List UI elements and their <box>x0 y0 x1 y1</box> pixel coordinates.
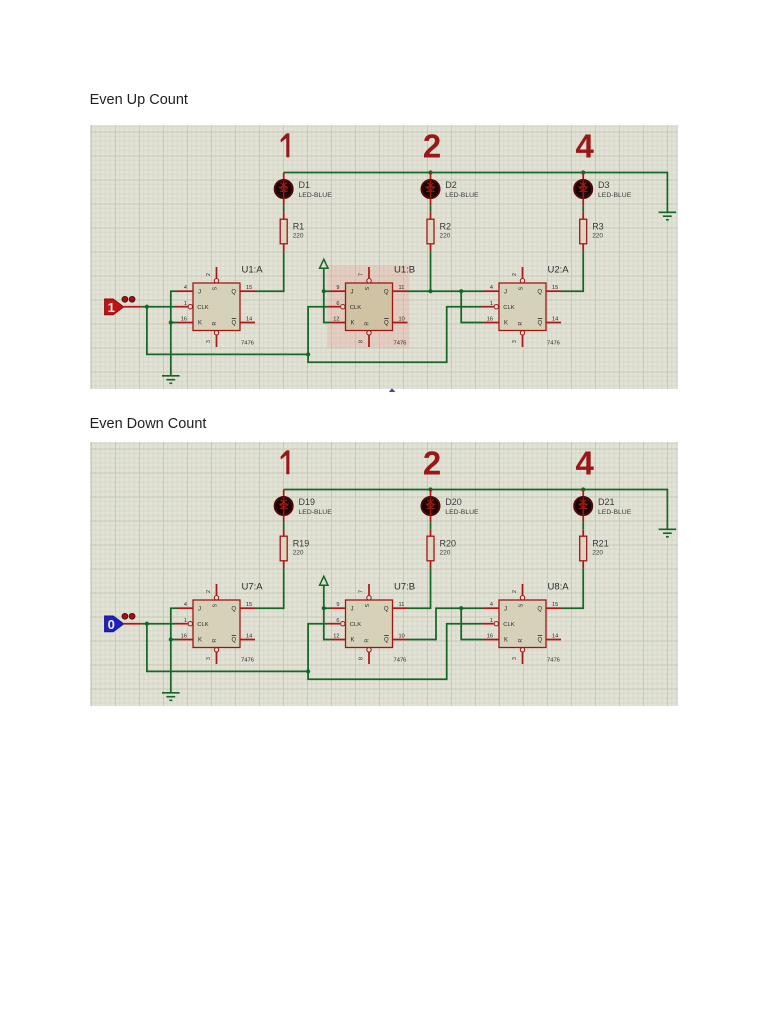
svg-text:R1: R1 <box>293 221 305 231</box>
svg-text:14: 14 <box>246 633 252 639</box>
svg-text:LED-BLUE: LED-BLUE <box>598 192 632 199</box>
svg-text:15: 15 <box>552 285 558 291</box>
LED D21 with anode stub from rail <box>574 489 632 522</box>
digit label 1 <box>281 133 290 157</box>
svg-text:7: 7 <box>359 589 365 592</box>
svg-text:Q: Q <box>232 321 237 327</box>
JK flip-flop U8:A (7476) <box>481 584 561 664</box>
section title: Even Up Count <box>90 92 188 108</box>
JK flip-flop U1:A (7476) <box>175 267 255 347</box>
svg-text:7: 7 <box>359 273 365 276</box>
svg-text:1: 1 <box>184 617 187 623</box>
svg-text:11: 11 <box>399 602 405 608</box>
svg-text:Q: Q <box>384 290 389 296</box>
wire clock net from probe to CLK pins <box>142 622 175 624</box>
svg-text:K: K <box>198 321 202 327</box>
node K1 junction <box>169 320 173 324</box>
schematic 2: even down counter <box>90 442 678 706</box>
svg-text:K: K <box>198 637 202 643</box>
svg-text:U7:A: U7:A <box>242 581 264 592</box>
wire LED D2 cathode to resistor R2 <box>430 205 432 212</box>
svg-text:U1:A: U1:A <box>242 265 264 276</box>
svg-text:R20: R20 <box>440 538 457 548</box>
svg-text:Q: Q <box>538 637 543 643</box>
svg-text:2: 2 <box>423 444 441 481</box>
resistor R1 220 <box>280 212 304 251</box>
node Q2/R2 <box>428 289 432 293</box>
node rail/D3 <box>581 487 585 491</box>
wire junction down to K of FF3 <box>461 608 484 639</box>
wire Qbar of FF2 to J/K of FF3 <box>408 608 485 639</box>
svg-text:2: 2 <box>512 273 518 276</box>
svg-text:10: 10 <box>399 633 405 639</box>
node probe/clock junction <box>145 305 149 309</box>
wire junction down to K of FF3 <box>461 291 484 322</box>
wire Q of FF3 to D-column 3 <box>561 251 583 291</box>
svg-text:7476: 7476 <box>547 657 560 663</box>
svg-text:15: 15 <box>552 602 558 608</box>
pin name labels of U1:B <box>350 286 389 326</box>
svg-text:CLK: CLK <box>350 622 361 628</box>
svg-text:4: 4 <box>184 602 187 608</box>
svg-text:S: S <box>212 286 218 290</box>
node K1 junction <box>169 637 173 641</box>
svg-text:R21: R21 <box>592 538 609 548</box>
JK flip-flop U1:B (7476) <box>328 267 408 347</box>
svg-text:D3: D3 <box>598 180 610 190</box>
pin numbers of U1:A <box>181 273 252 343</box>
svg-text:U7:B: U7:B <box>394 581 415 592</box>
node J3/K3 tie <box>459 606 463 610</box>
LED D19 with anode stub from rail <box>275 489 333 522</box>
svg-text:D2: D2 <box>445 180 457 190</box>
svg-text:Q: Q <box>231 606 236 612</box>
svg-text:R: R <box>518 321 524 325</box>
svg-text:D20: D20 <box>445 497 462 507</box>
svg-text:11: 11 <box>399 285 405 291</box>
svg-text:16: 16 <box>487 316 493 322</box>
svg-text:8: 8 <box>359 340 365 343</box>
svg-text:4: 4 <box>576 444 595 481</box>
svg-text:CLK: CLK <box>503 622 514 628</box>
wire power terminal to J/K of FF2 <box>324 268 331 322</box>
svg-text:Q: Q <box>384 637 389 643</box>
svg-text:16: 16 <box>487 633 493 639</box>
wire top rail to right ground <box>284 489 668 529</box>
svg-text:J: J <box>504 606 507 612</box>
ground (right) <box>659 529 677 537</box>
wire J/K of FF1 to ground <box>171 608 178 693</box>
node probe/clock junction <box>145 621 149 625</box>
wire Q of FF3 to D-column 3 <box>561 568 583 608</box>
svg-text:S: S <box>518 603 524 607</box>
svg-text:7476: 7476 <box>241 657 254 663</box>
section title: Even Down Count <box>90 416 207 432</box>
LED D20 with anode stub from rail <box>422 489 480 522</box>
svg-text:R: R <box>212 321 218 325</box>
svg-text:9: 9 <box>336 602 339 608</box>
svg-text:6: 6 <box>336 301 339 307</box>
svg-text:4: 4 <box>576 127 595 164</box>
wire Q of FF1 to D-column 1 <box>255 251 284 291</box>
digit label 1 <box>281 450 290 474</box>
svg-text:14: 14 <box>552 633 558 639</box>
svg-text:7476: 7476 <box>394 341 407 347</box>
svg-text:Q: Q <box>231 290 236 296</box>
svg-text:3: 3 <box>512 340 518 343</box>
node rail/D3 <box>581 170 585 174</box>
wire LED D1 cathode to resistor R1 <box>283 205 285 212</box>
svg-text:7476: 7476 <box>394 657 407 663</box>
logic state probe 1 <box>105 296 135 315</box>
svg-text:12: 12 <box>333 633 339 639</box>
svg-text:J: J <box>504 290 507 296</box>
svg-text:15: 15 <box>246 285 252 291</box>
power terminal (up arrow) for J/K of FF2 <box>320 259 328 268</box>
resistor R19 220 <box>280 529 309 568</box>
cursor marker (blue) below schematic 1 <box>388 388 398 394</box>
svg-text:220: 220 <box>293 233 304 240</box>
wire LED D19 cathode to resistor R19 <box>283 522 285 529</box>
svg-text:U8:A: U8:A <box>548 581 570 592</box>
svg-text:2: 2 <box>512 589 518 592</box>
node clock bottom junction <box>306 669 310 673</box>
resistor R21 220 <box>580 529 609 568</box>
svg-text:10: 10 <box>399 316 405 322</box>
svg-text:LED-BLUE: LED-BLUE <box>299 508 333 515</box>
wire LED D20 cathode to resistor R20 <box>430 522 432 529</box>
svg-text:7476: 7476 <box>241 341 254 347</box>
resistor R20 220 <box>427 529 456 568</box>
wire probe output stub <box>124 622 142 624</box>
wire probe output stub <box>124 306 142 308</box>
svg-text:2: 2 <box>423 127 441 164</box>
svg-text:16: 16 <box>181 633 187 639</box>
svg-text:0: 0 <box>108 617 115 632</box>
svg-text:6: 6 <box>336 617 339 623</box>
JK flip-flop U7:B (7476) <box>328 584 408 664</box>
LED D3 with anode stub from rail <box>574 173 632 206</box>
schematic 1: even up counter <box>90 125 678 389</box>
pin name labels of U7:A <box>197 603 236 643</box>
wire clock net from probe to CLK pins <box>142 306 175 308</box>
svg-text:Q: Q <box>232 637 237 643</box>
ground (left) <box>162 376 180 384</box>
svg-text:8: 8 <box>359 656 365 659</box>
svg-text:3: 3 <box>512 656 518 659</box>
logic state probe 0 <box>105 613 135 632</box>
node rail/D2 <box>428 170 432 174</box>
svg-text:Q: Q <box>538 321 543 327</box>
svg-text:R: R <box>212 638 218 642</box>
resistor R2 220 <box>427 212 451 251</box>
wire LED D21 cathode to resistor R21 <box>582 522 584 529</box>
svg-text:J: J <box>351 606 354 612</box>
JK flip-flop U7:A (7476) <box>175 584 255 664</box>
svg-text:Q: Q <box>537 290 542 296</box>
svg-text:1: 1 <box>108 300 115 315</box>
svg-text:S: S <box>365 603 371 607</box>
svg-text:R: R <box>518 638 524 642</box>
svg-text:12: 12 <box>333 316 339 322</box>
svg-text:S: S <box>518 286 524 290</box>
node J3/K3 tie <box>459 289 463 293</box>
pin name labels of U7:B <box>350 603 389 643</box>
svg-text:R2: R2 <box>440 221 452 231</box>
svg-text:4: 4 <box>184 285 187 291</box>
svg-text:U1:B: U1:B <box>394 265 415 276</box>
svg-text:CLK: CLK <box>350 305 361 311</box>
svg-text:220: 220 <box>440 233 451 240</box>
svg-text:Q: Q <box>384 321 389 327</box>
svg-text:2: 2 <box>206 589 212 592</box>
svg-text:J: J <box>198 606 201 612</box>
svg-text:D21: D21 <box>598 497 615 507</box>
LED D1 with anode stub from rail <box>275 173 333 206</box>
svg-text:D1: D1 <box>299 180 311 190</box>
ground (right) <box>659 212 677 220</box>
wire Q of FF1 to D-column 1 <box>255 568 284 608</box>
svg-text:K: K <box>504 321 508 327</box>
svg-text:CLK: CLK <box>197 622 208 628</box>
pin name labels of U2:A <box>503 286 542 326</box>
svg-text:CLK: CLK <box>197 305 208 311</box>
svg-text:4: 4 <box>490 285 493 291</box>
wire top rail to right ground <box>284 173 668 213</box>
ground (left) <box>162 692 180 700</box>
svg-text:U2:A: U2:A <box>548 265 570 276</box>
svg-text:9: 9 <box>336 285 339 291</box>
wire Q of FF2 up to D-column 2 <box>408 568 431 608</box>
pin numbers of U7:A <box>181 589 252 659</box>
pin name labels of U8:A <box>503 603 542 643</box>
svg-text:D19: D19 <box>299 497 316 507</box>
svg-text:1: 1 <box>490 617 493 623</box>
svg-text:14: 14 <box>552 316 558 322</box>
svg-text:Q: Q <box>384 606 389 612</box>
node power/J2 junction <box>322 606 326 610</box>
svg-text:220: 220 <box>440 549 451 556</box>
svg-text:3: 3 <box>206 656 212 659</box>
pin numbers of U1:B <box>333 273 404 343</box>
svg-text:2: 2 <box>206 273 212 276</box>
svg-text:16: 16 <box>181 316 187 322</box>
JK flip-flop U2:A (7476) <box>481 267 561 347</box>
svg-text:R: R <box>364 321 370 325</box>
power terminal (up arrow) for J/K of FF2 <box>320 576 328 585</box>
svg-text:1: 1 <box>490 301 493 307</box>
svg-text:3: 3 <box>206 340 212 343</box>
pin numbers of U2:A <box>487 273 558 343</box>
svg-text:S: S <box>365 286 371 290</box>
svg-text:220: 220 <box>592 233 603 240</box>
wire power terminal to J/K of FF2 <box>324 585 331 639</box>
selection highlight around U1:B <box>327 265 409 348</box>
svg-text:1: 1 <box>184 301 187 307</box>
node clock bottom junction <box>306 352 310 356</box>
svg-text:R19: R19 <box>293 538 310 548</box>
node power/J2 junction <box>322 289 326 293</box>
svg-text:220: 220 <box>293 549 304 556</box>
svg-text:K: K <box>351 637 355 643</box>
svg-text:Q: Q <box>537 606 542 612</box>
svg-text:LED-BLUE: LED-BLUE <box>598 508 632 515</box>
node rail/D2 <box>428 487 432 491</box>
resistor R3 220 <box>580 212 604 251</box>
svg-text:J: J <box>351 290 354 296</box>
svg-text:R3: R3 <box>592 221 604 231</box>
svg-text:4: 4 <box>490 602 493 608</box>
svg-text:K: K <box>351 321 355 327</box>
pin numbers of U8:A <box>487 589 558 659</box>
pin numbers of U7:B <box>333 589 404 659</box>
svg-text:LED-BLUE: LED-BLUE <box>299 192 333 199</box>
wire Q of FF2 to D-column 2 and to J/K of FF3 <box>430 251 432 291</box>
LED D2 with anode stub from rail <box>422 173 480 206</box>
svg-text:J: J <box>198 290 201 296</box>
svg-text:14: 14 <box>246 316 252 322</box>
svg-text:220: 220 <box>592 549 603 556</box>
svg-text:CLK: CLK <box>503 305 514 311</box>
svg-text:15: 15 <box>246 602 252 608</box>
svg-text:K: K <box>504 637 508 643</box>
svg-text:LED-BLUE: LED-BLUE <box>445 192 479 199</box>
wire J/K of FF1 to ground <box>171 291 178 376</box>
svg-text:S: S <box>212 603 218 607</box>
pin name labels of U1:A <box>197 286 236 326</box>
wire LED D3 cathode to resistor R3 <box>582 205 584 212</box>
svg-text:7476: 7476 <box>547 341 560 347</box>
svg-text:LED-BLUE: LED-BLUE <box>445 508 479 515</box>
svg-text:R: R <box>364 638 370 642</box>
